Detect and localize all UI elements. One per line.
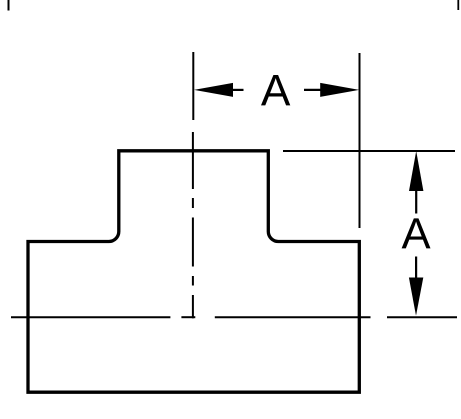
tee body outline bbox=[28, 151, 359, 392]
vertical dimension down arrowhead bbox=[409, 278, 423, 316]
border tick left bbox=[8, 0, 10, 11]
border tick right bbox=[457, 0, 459, 10]
extension line top (branch face) bbox=[283, 150, 455, 152]
horizontal dimension line left shaft bbox=[232, 89, 244, 91]
dimension text A (horizontal) bbox=[261, 75, 290, 105]
horizontal dimension right arrowhead bbox=[320, 83, 359, 97]
vertical dimension line upper shaft bbox=[415, 190, 417, 214]
extension line right (run end face) bbox=[359, 53, 361, 228]
vertical dimension up arrowhead bbox=[409, 151, 423, 191]
horizontal centerline (run) bbox=[11, 316, 371, 318]
dimension text A (vertical) bbox=[402, 218, 431, 248]
extension line left (at branch centerline) bbox=[192, 52, 194, 120]
vertical centerline (branch) bbox=[192, 132, 194, 318]
extension line bottom (run centerline) bbox=[387, 316, 457, 318]
horizontal dimension left arrowhead bbox=[194, 83, 233, 97]
horizontal dimension line right shaft bbox=[304, 89, 321, 91]
vertical dimension line lower shaft bbox=[415, 257, 417, 279]
